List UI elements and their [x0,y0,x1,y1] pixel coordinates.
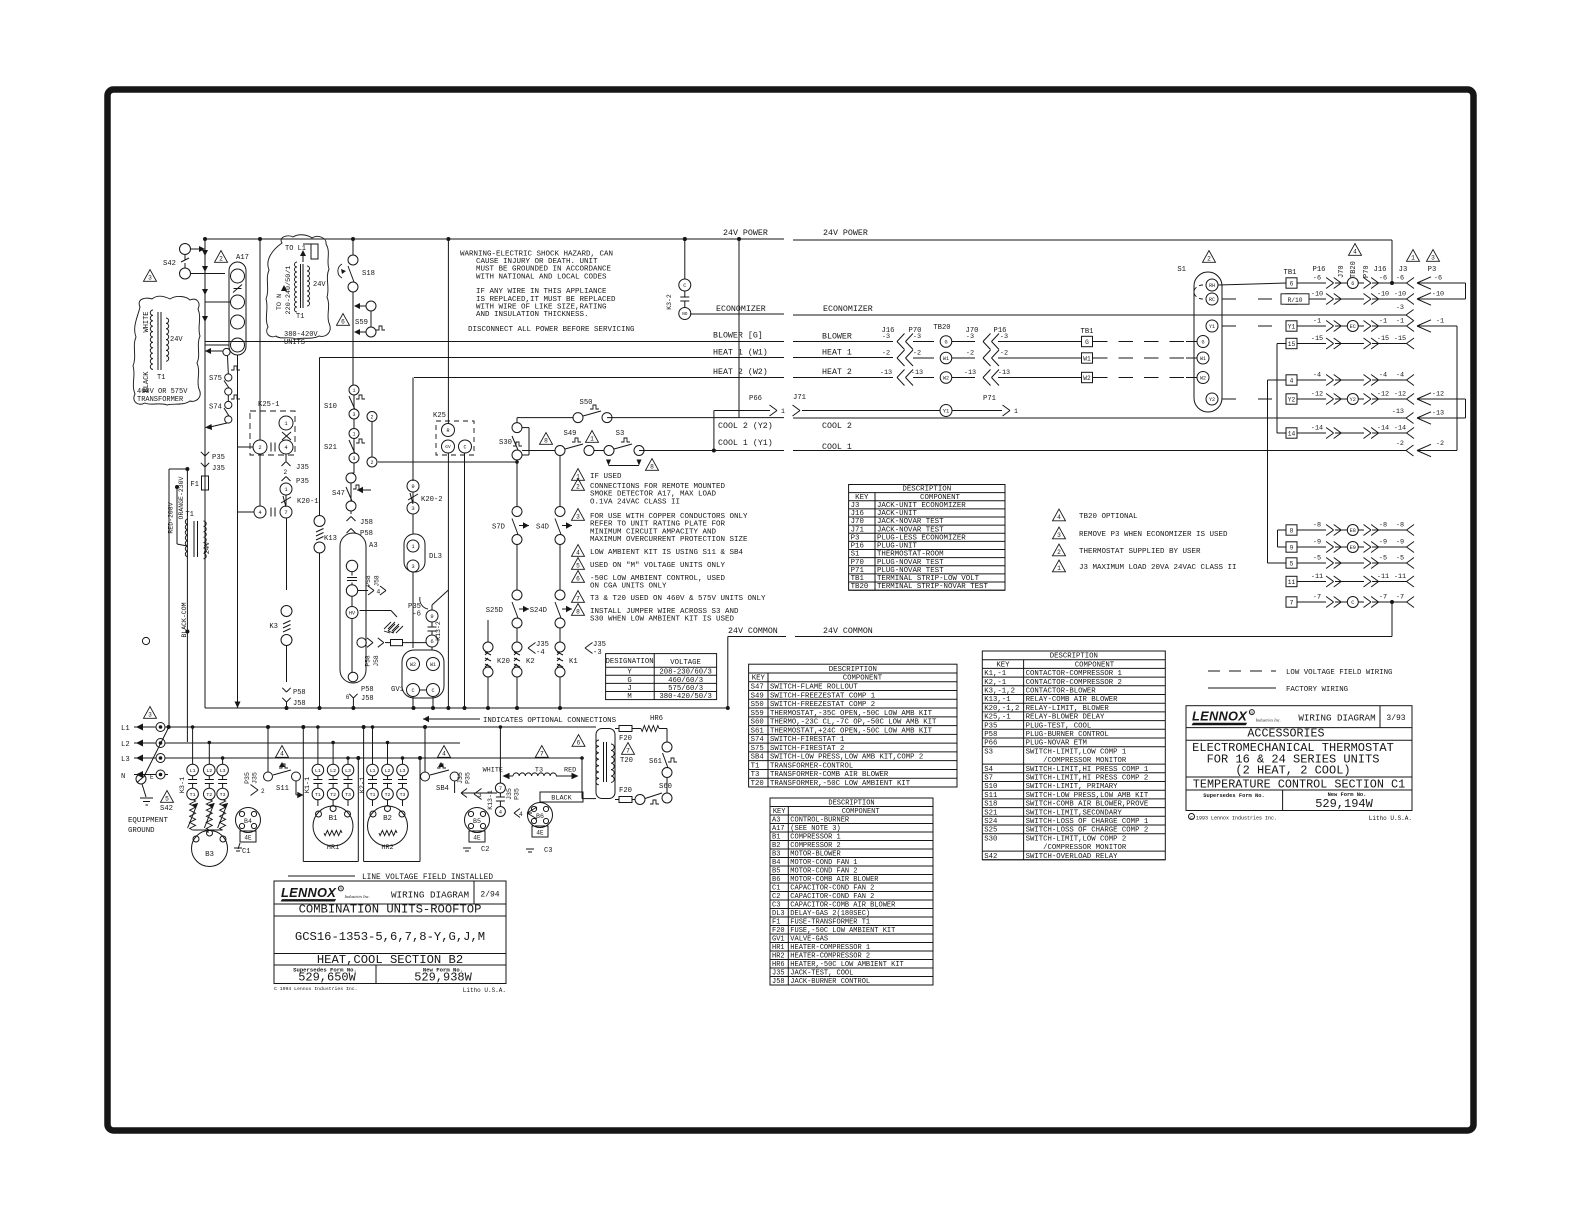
svg-text:S59: S59 [355,319,368,327]
svg-text:-1: -1 [1379,318,1387,326]
svg-text:S42: S42 [163,260,176,268]
svg-text:1: 1 [781,408,785,415]
svg-text:TEMPERATURE CONTROL SECTION C1: TEMPERATURE CONTROL SECTION C1 [1193,778,1405,792]
svg-text:J71: J71 [793,394,806,402]
svg-text:S47: S47 [332,490,345,498]
svg-text:S18: S18 [362,270,375,278]
svg-text:Supersedes Form No.: Supersedes Form No. [1203,793,1264,799]
svg-text:C: C [1351,600,1354,606]
svg-text:S21: S21 [324,444,337,452]
svg-text:-2: -2 [913,350,921,358]
svg-text:P35: P35 [514,788,521,800]
svg-text:COOL 1 (Y1): COOL 1 (Y1) [718,438,773,448]
svg-text:P58: P58 [365,655,372,667]
svg-text:THERMOSTAT SUPPLIED BY USER: THERMOSTAT SUPPLIED BY USER [1079,548,1201,556]
svg-text:S3: S3 [984,748,993,756]
svg-text:6: 6 [346,694,350,701]
svg-text:-9: -9 [1379,539,1387,547]
svg-text:8: 8 [650,463,654,470]
svg-text:EQUIPMENT: EQUIPMENT [128,817,168,825]
svg-text:P58: P58 [365,575,372,587]
svg-text:3: 3 [1057,532,1061,539]
svg-text:-5: -5 [1313,555,1321,563]
svg-text:W2: W2 [943,375,949,381]
svg-text:-3: -3 [593,649,602,657]
svg-text:Y2: Y2 [1350,397,1356,403]
svg-text:S61: S61 [649,758,662,766]
svg-text:K13: K13 [324,535,337,543]
svg-text:-9: -9 [1396,539,1404,547]
svg-text:W1: W1 [943,356,949,362]
svg-text:K20-2: K20-2 [421,496,443,504]
svg-text:3: 3 [411,505,414,512]
svg-text:B5: B5 [473,818,481,825]
svg-text:TB20: TB20 [933,324,950,332]
svg-text:INDICATES OPTIONAL CONNECTIONS: INDICATES OPTIONAL CONNECTIONS [483,717,617,725]
svg-text:-1: -1 [1313,318,1321,326]
svg-text:WHITE: WHITE [483,767,503,775]
svg-text:4: 4 [280,750,284,757]
svg-text:8: 8 [576,608,580,615]
svg-text:C 1994 Lennox Industries Inc.: C 1994 Lennox Industries Inc. [274,986,357,992]
svg-text:4E: 4E [473,835,481,842]
svg-text:-4: -4 [536,649,545,657]
svg-text:P58: P58 [293,689,306,697]
svg-text:-12: -12 [1432,391,1444,399]
svg-text:24V POWER: 24V POWER [723,229,768,238]
svg-text:COMBINATION UNITS-ROOFTOP: COMBINATION UNITS-ROOFTOP [299,903,482,917]
svg-text:HEAT 1: HEAT 1 [822,349,852,358]
svg-text:K3-2: K3-2 [666,294,673,310]
svg-text:P35: P35 [244,772,251,784]
svg-text:-10: -10 [1432,291,1444,299]
svg-text:T3: T3 [345,792,351,798]
svg-text:S74: S74 [209,404,222,412]
svg-text:9: 9 [411,483,414,490]
svg-text:-3: -3 [966,333,974,341]
svg-text:1: 1 [1411,254,1415,261]
svg-text:2: 2 [370,414,373,420]
svg-text:BLOWER [G]: BLOWER [G] [713,331,763,341]
svg-text:W2: W2 [1083,375,1091,382]
svg-text:-13: -13 [998,369,1010,377]
svg-text:-13: -13 [880,369,892,377]
svg-text:3: 3 [352,456,355,462]
svg-text:L3: L3 [400,768,406,774]
svg-text:-3: -3 [1000,333,1008,341]
svg-text:S24D: S24D [530,607,547,615]
svg-text:P71: P71 [983,395,996,403]
svg-text:S10: S10 [324,403,337,411]
svg-text:LENNOX: LENNOX [1192,709,1248,724]
svg-text:ON CGA UNITS ONLY: ON CGA UNITS ONLY [590,583,667,591]
svg-text:P35: P35 [296,478,309,486]
svg-text:-1: -1 [1396,318,1404,326]
svg-text:J70: J70 [1338,265,1346,278]
svg-text:Y2: Y2 [1288,396,1296,403]
svg-text:J35: J35 [212,465,225,473]
svg-text:HR6: HR6 [650,715,663,723]
svg-text:24V POWER: 24V POWER [823,229,868,238]
svg-text:COOL 2: COOL 2 [822,422,852,431]
svg-text:TRANSFORMER: TRANSFORMER [137,396,184,404]
svg-text:C2: C2 [481,846,489,854]
svg-text:-10: -10 [1311,291,1323,299]
svg-text:M: M [627,693,631,701]
svg-text:BLOWER: BLOWER [822,333,852,342]
svg-text:S75: S75 [209,375,222,383]
svg-text:LOW VOLTAGE FIELD WIRING: LOW VOLTAGE FIELD WIRING [1286,669,1392,677]
svg-text:G: G [944,339,947,345]
svg-text:J58: J58 [361,695,374,703]
svg-text:J35: J35 [296,464,309,472]
svg-text:Industries Inc.: Industries Inc. [1255,718,1281,723]
svg-text:8: 8 [544,437,548,444]
svg-text:W1: W1 [1200,356,1206,362]
svg-text:ACCESSORIES: ACCESSORIES [1247,727,1324,741]
svg-text:7: 7 [626,747,630,754]
svg-text:ECONOMIZER: ECONOMIZER [716,305,766,314]
svg-text:380-420V: 380-420V [284,331,318,339]
svg-text:N: N [121,773,125,781]
svg-text:529,194W: 529,194W [1315,797,1373,811]
svg-text:9: 9 [1290,544,1294,551]
svg-text:TB20: TB20 [1350,261,1358,278]
svg-text:2: 2 [370,460,373,466]
svg-text:3: 3 [411,563,414,570]
svg-text:LOW AMBIENT KIT IS USING S11 &: LOW AMBIENT KIT IS USING S11 & SB4 [590,549,744,557]
svg-text:Industries Inc.: Industries Inc. [344,894,370,899]
svg-text:3/93: 3/93 [1386,714,1405,723]
svg-text:2: 2 [1207,255,1211,262]
svg-text:B1: B1 [329,815,338,823]
svg-text:T1: T1 [315,792,321,798]
svg-text:HEAT 2: HEAT 2 [822,368,852,377]
svg-text:RC: RC [1209,297,1215,303]
svg-text:BLACK-COM: BLACK-COM [181,602,188,637]
svg-text:L3: L3 [220,768,226,774]
svg-text:4: 4 [576,549,580,556]
svg-text:-8: -8 [1379,522,1387,530]
svg-text:-4: -4 [1313,372,1321,380]
svg-text:-12: -12 [1394,391,1406,399]
svg-text:T2: T2 [206,792,212,798]
svg-text:UNITS: UNITS [284,339,305,347]
svg-text:WITH NATIONAL AND LOCAL CODES: WITH NATIONAL AND LOCAL CODES [476,273,607,281]
svg-text:-4: -4 [1396,372,1404,380]
svg-text:L3: L3 [121,756,130,764]
svg-text:2: 2 [576,483,580,490]
svg-text:1: 1 [1014,408,1018,415]
svg-text:-5: -5 [1396,555,1404,563]
svg-text:J35: J35 [536,641,549,649]
svg-text:L1: L1 [315,768,321,774]
svg-text:-6: -6 [412,611,421,619]
svg-text:-11: -11 [1394,573,1406,581]
svg-text:-12: -12 [1377,391,1389,399]
svg-text:TB1: TB1 [1284,269,1297,277]
svg-text:S60: S60 [659,783,672,791]
svg-text:6: 6 [1351,281,1354,287]
svg-text:-13: -13 [964,369,976,377]
svg-text:J35: J35 [252,772,259,784]
svg-text:L2: L2 [121,741,130,749]
svg-text:S42: S42 [160,805,173,813]
svg-text:-2: -2 [882,350,890,358]
svg-text:-2: -2 [1000,350,1008,358]
svg-text:K2: K2 [526,658,535,666]
svg-text:L1: L1 [190,768,196,774]
svg-text:HEAT 1 (W1): HEAT 1 (W1) [713,348,768,358]
svg-text:460V OR 575V: 460V OR 575V [137,388,188,396]
svg-text:P16: P16 [1313,266,1326,274]
svg-text:4E: 4E [536,830,544,837]
svg-text:1: 1 [1057,565,1061,572]
svg-text:K25-1: K25-1 [258,401,280,409]
svg-text:5: 5 [165,795,169,802]
svg-text:7: 7 [576,595,580,602]
svg-text:24V: 24V [170,336,183,344]
svg-text:TB1: TB1 [1081,328,1094,336]
svg-text:DESIGNATION: DESIGNATION [606,658,654,666]
svg-text:1: 1 [352,388,355,394]
svg-text:Litho U.S.A.: Litho U.S.A. [1369,815,1412,822]
svg-text:6: 6 [577,739,581,746]
svg-text:SB4: SB4 [436,785,449,793]
svg-text:S3: S3 [616,430,625,438]
svg-text:J3 MAXIMUM LOAD 20VA 24VAC CLA: J3 MAXIMUM LOAD 20VA 24VAC CLASS II [1079,564,1237,572]
svg-text:3: 3 [352,412,355,418]
svg-text:24V COMMON: 24V COMMON [728,627,778,636]
svg-text:T2: T2 [385,792,391,798]
svg-text:VOLTAGE: VOLTAGE [670,659,701,667]
svg-text:T1: T1 [157,374,165,382]
svg-text:T2: T2 [330,792,336,798]
svg-text:C: C [431,688,434,694]
svg-text:HR1: HR1 [327,844,339,852]
svg-text:380-420/50/3: 380-420/50/3 [659,693,712,701]
svg-text:J58: J58 [293,700,306,708]
svg-text:J58: J58 [373,655,380,667]
svg-text:HR2: HR2 [381,844,393,852]
svg-text:GV1: GV1 [391,686,404,694]
svg-text:SWITCH-LIMIT,LOW COMP 2: SWITCH-LIMIT,LOW COMP 2 [1026,835,1127,843]
svg-text:6: 6 [1290,280,1294,287]
svg-text:L3: L3 [345,768,351,774]
svg-text:3: 3 [1431,254,1435,261]
svg-text:T3 & T20 USED ON 460V & 575V U: T3 & T20 USED ON 460V & 575V UNITS ONLY [590,595,766,603]
svg-text:-3: -3 [1396,304,1404,312]
svg-text:HV: HV [349,610,355,616]
svg-text:S25D: S25D [486,607,503,615]
svg-text:T20: T20 [620,757,633,765]
svg-text:1: 1 [590,435,594,442]
svg-text:E8: E8 [1350,528,1356,534]
svg-text:RED: RED [564,767,576,775]
svg-text:B3: B3 [205,851,214,859]
svg-text:S30 WHEN LOW AMBIENT KIT IS US: S30 WHEN LOW AMBIENT KIT IS USED [590,616,735,624]
svg-text:TO N: TO N [276,294,284,310]
svg-text:-4: -4 [1379,372,1387,380]
svg-text:9: 9 [430,613,433,620]
svg-text:J58: J58 [374,575,381,587]
svg-text:-14: -14 [1377,425,1389,433]
svg-text:T3: T3 [535,767,543,775]
svg-text:-9: -9 [1313,539,1321,547]
svg-text:S7D: S7D [492,524,505,532]
svg-text:COOL 2 (Y2): COOL 2 (Y2) [718,421,773,431]
svg-text:T3: T3 [400,792,406,798]
svg-text:F20: F20 [619,787,632,795]
svg-text:A3: A3 [369,542,378,550]
svg-text:F20: F20 [619,735,632,743]
svg-text:G: G [1085,339,1089,346]
svg-text:S49: S49 [564,430,577,438]
svg-text:C: C [463,444,466,450]
svg-text:B6: B6 [536,813,544,820]
svg-text:S30: S30 [984,835,997,843]
svg-text:K3: K3 [269,623,278,631]
svg-text:K1: K1 [569,658,578,666]
svg-text:8: 8 [1290,527,1294,534]
svg-text:K13-1: K13-1 [487,790,494,810]
svg-text:P35: P35 [212,454,225,462]
svg-text:R: R [446,428,449,434]
svg-text:-10: -10 [1394,291,1406,299]
svg-text:T1: T1 [190,792,196,798]
svg-text:4: 4 [1353,248,1357,255]
svg-text:2: 2 [1057,549,1061,556]
svg-text:5: 5 [1290,560,1294,567]
svg-text:IF USED: IF USED [590,473,622,481]
svg-text:-7: -7 [1396,594,1404,602]
svg-text:-13: -13 [1392,408,1404,416]
svg-text:A17: A17 [236,254,249,262]
svg-text:W1: W1 [430,662,436,668]
svg-text:-3: -3 [913,333,921,341]
svg-text:K2-1: K2-1 [359,777,367,793]
svg-text:-6: -6 [1396,275,1404,283]
svg-text:529,938W: 529,938W [414,971,472,985]
svg-text:T3: T3 [220,792,226,798]
svg-text:WHITE: WHITE [143,311,151,332]
svg-text:4: 4 [1290,377,1294,384]
svg-text:J35: J35 [593,641,606,649]
svg-text:T1: T1 [370,792,376,798]
svg-text:2: 2 [284,469,288,476]
svg-text:ECONOMIZER: ECONOMIZER [823,305,873,314]
svg-text:15: 15 [1288,341,1296,348]
svg-text:-2: -2 [1396,440,1404,448]
svg-text:B4: B4 [244,818,252,825]
svg-text:B2: B2 [383,815,392,823]
svg-text:C1: C1 [242,848,250,856]
svg-text:-8: -8 [1396,522,1404,530]
svg-text:4: 4 [1057,514,1061,521]
svg-text:C3: C3 [544,847,552,855]
svg-text:-15: -15 [1377,335,1389,343]
svg-text:WIRING DIAGRAM: WIRING DIAGRAM [1298,713,1375,724]
svg-text:-14: -14 [1311,425,1323,433]
svg-text:7: 7 [540,750,544,757]
svg-text:C: C [683,283,686,289]
svg-text:ORANGE-230V: ORANGE-230V [178,476,185,519]
svg-text:P58: P58 [361,686,374,694]
svg-text:-12: -12 [1311,391,1323,399]
svg-text:529,650W: 529,650W [298,971,356,985]
svg-text:L2: L2 [206,768,212,774]
svg-text:14: 14 [1288,430,1296,437]
svg-text:4: 4 [519,811,523,818]
svg-text:NO: NO [682,311,688,317]
svg-text:7: 7 [1290,599,1294,606]
svg-text:L2: L2 [330,768,336,774]
svg-text:DL3: DL3 [429,553,442,561]
svg-text:E: E [150,774,154,781]
svg-text:MAXIMUM OVERCURRENT PROTECTION: MAXIMUM OVERCURRENT PROTECTION SIZE [590,536,748,544]
svg-text:2: 2 [261,788,265,795]
svg-text:6: 6 [576,575,580,582]
svg-text:S1: S1 [1177,266,1186,274]
svg-text:-11: -11 [1377,573,1389,581]
svg-text:S30: S30 [499,439,512,447]
svg-text:-1: -1 [1436,318,1444,326]
svg-text:4E: 4E [244,835,252,842]
svg-text:K3-1: K3-1 [179,777,187,793]
svg-text:K20-1: K20-1 [297,498,319,506]
svg-text:K25: K25 [433,412,446,420]
svg-text:4: 4 [442,750,446,757]
svg-text:7: 7 [499,785,502,792]
svg-text:TB20 OPTIONAL: TB20 OPTIONAL [1079,513,1138,521]
svg-text:3: 3 [148,711,152,718]
svg-text:AND INSULATION THICKNESS.: AND INSULATION THICKNESS. [476,311,589,319]
svg-text:-6: -6 [1379,275,1387,283]
svg-text:-5: -5 [1379,555,1387,563]
svg-text:Y1: Y1 [1288,323,1296,330]
svg-text:DISCONNECT ALL POWER BEFORE SE: DISCONNECT ALL POWER BEFORE SERVICING [468,326,635,334]
svg-text:GV: GV [445,444,451,450]
svg-text:J35: J35 [457,772,464,784]
svg-text:L1: L1 [370,768,376,774]
svg-text:-7: -7 [1379,594,1387,602]
svg-text:3: 3 [148,274,152,281]
svg-text:O.1VA 24VAC CLASS II: O.1VA 24VAC CLASS II [590,498,680,506]
svg-text:2/94: 2/94 [480,891,499,900]
svg-text:11: 11 [1288,579,1296,586]
svg-text:RH: RH [1209,283,1215,289]
svg-text:J16: J16 [1374,266,1387,274]
svg-text:24V: 24V [204,541,212,554]
svg-text:J35: J35 [506,788,513,800]
svg-text:EC: EC [1350,324,1356,330]
svg-text:P70: P70 [1363,265,1371,278]
svg-text:L1: L1 [121,725,130,733]
svg-text:W2: W2 [410,662,416,668]
svg-text:E9: E9 [1350,545,1356,551]
svg-text:-2: -2 [966,350,974,358]
svg-text:WIRING DIAGRAM: WIRING DIAGRAM [391,890,469,901]
svg-text:6: 6 [341,318,345,325]
svg-text:5: 5 [576,562,580,569]
svg-text:REMOVE P3 WHEN ECONOMIZER IS U: REMOVE P3 WHEN ECONOMIZER IS USED [1079,531,1228,539]
svg-text:P66: P66 [749,395,762,403]
svg-text:3: 3 [576,513,580,520]
svg-text:GCS16-1353-5,6,7,8-Y,G,J,M: GCS16-1353-5,6,7,8-Y,G,J,M [295,930,485,944]
svg-text:HEAT 2 (W2): HEAT 2 (W2) [713,367,768,377]
svg-text:-15: -15 [1394,335,1406,343]
svg-text:-15: -15 [1311,335,1323,343]
